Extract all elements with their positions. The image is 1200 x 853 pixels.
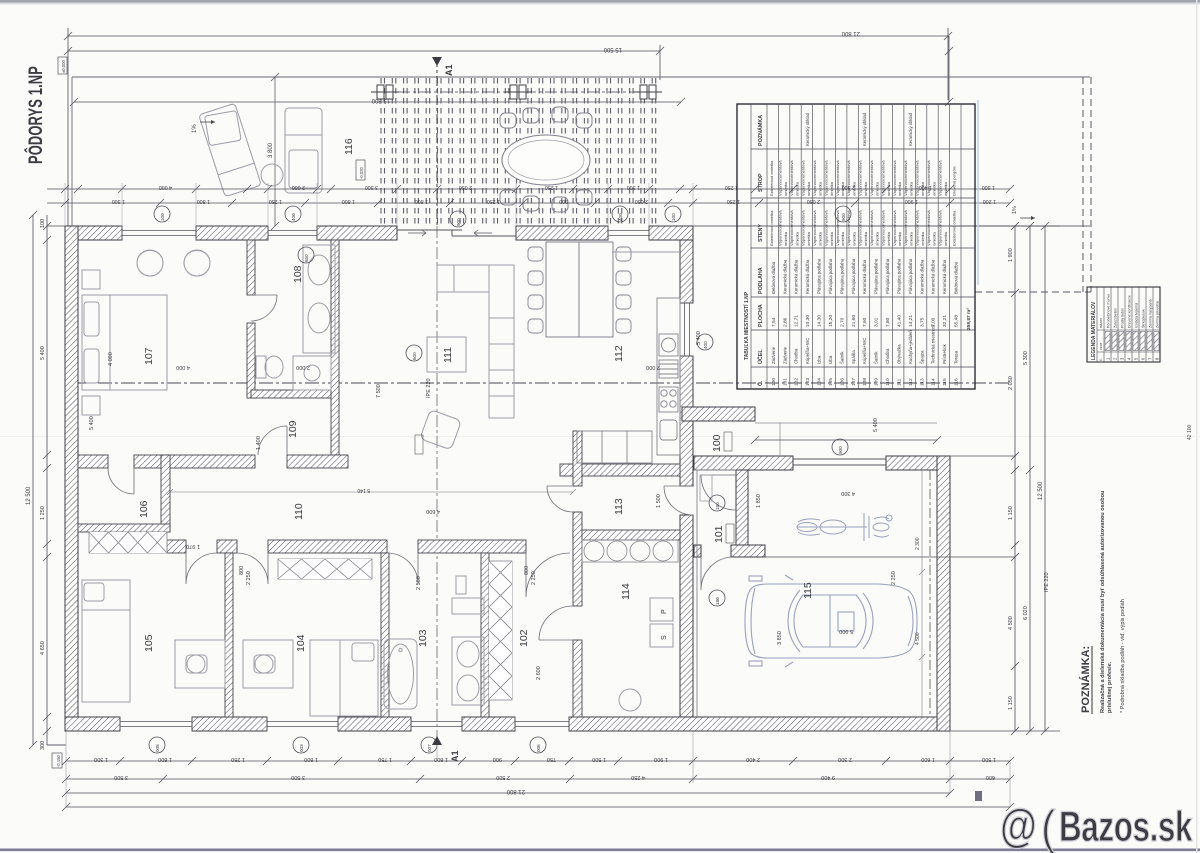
svg-text:* Podrobná skladba podláh - vi: * Podrobná skladba podláh - viď. výpis p… xyxy=(1120,599,1126,713)
svg-text:Č.: Č. xyxy=(757,380,764,386)
svg-text:omietka: omietka xyxy=(852,181,857,196)
svg-text:Vápennocementová: Vápennocementová xyxy=(880,160,885,196)
svg-text:100: 100 xyxy=(711,434,723,452)
svg-text:Prístrešok: Prístrešok xyxy=(942,343,947,364)
terrace roof edge dashed right xyxy=(975,77,1091,292)
svg-text:Vápennocementová: Vápennocementová xyxy=(846,160,851,196)
svg-text:106: 106 xyxy=(839,378,845,386)
top right small chain xyxy=(945,36,953,106)
svg-text:omietka: omietka xyxy=(886,181,891,196)
svg-text:1 300: 1 300 xyxy=(982,184,995,190)
annex south wall E3 xyxy=(694,545,701,557)
svg-text:Plávajúca podlaha: Plávajúca podlaha xyxy=(839,258,844,294)
svg-text:4 250: 4 250 xyxy=(631,774,645,780)
interior wall 107/108 xyxy=(247,240,255,398)
garage top wall left segment xyxy=(694,456,793,470)
svg-text:2 000: 2 000 xyxy=(292,184,305,190)
svg-text:Šatník: Šatník xyxy=(874,351,879,364)
svg-text:Šatník: Šatník xyxy=(839,351,844,364)
svg-text:1 300: 1 300 xyxy=(627,184,640,190)
top detail chain row B xyxy=(47,199,697,207)
svg-text:111: 111 xyxy=(896,378,902,386)
svg-text:2 600: 2 600 xyxy=(536,666,542,680)
svg-text:2 050: 2 050 xyxy=(1008,376,1014,390)
pergola column 1 xyxy=(371,85,399,99)
svg-text:100: 100 xyxy=(671,213,676,221)
svg-text:258,87 m²: 258,87 m² xyxy=(966,308,972,330)
coffee table 111 xyxy=(427,337,466,372)
svg-text:Prostý betón: Prostý betón xyxy=(1120,308,1124,328)
svg-text:Vápennocementová: Vápennocementová xyxy=(823,160,828,196)
svg-text:±0,000: ±0,000 xyxy=(61,60,66,73)
pergola column 2 xyxy=(504,85,532,99)
svg-text:2 250: 2 250 xyxy=(891,571,897,585)
svg-text:Vápennocementová: Vápennocementová xyxy=(778,210,783,246)
svg-text:2 250: 2 250 xyxy=(246,571,252,585)
table col room 112 xyxy=(903,112,914,386)
svg-text:21,60: 21,60 xyxy=(851,315,857,327)
faint crease line xyxy=(0,436,1200,437)
svg-text:omietka: omietka xyxy=(783,231,788,246)
svg-text:Vápennocementová: Vápennocementová xyxy=(858,210,863,246)
svg-text:Plávajúca podlaha: Plávajúca podlaha xyxy=(896,258,901,294)
washer dryer 114 xyxy=(650,598,673,647)
bottom scan edge xyxy=(0,849,1200,852)
svg-text:1 300: 1 300 xyxy=(112,198,125,204)
bottom windows xyxy=(120,717,569,731)
garage top wall right segment xyxy=(886,456,950,470)
svg-text:112: 112 xyxy=(613,345,625,362)
sofa room 111 xyxy=(437,265,514,418)
svg-text:Keramický obklad: Keramický obklad xyxy=(862,112,867,146)
svg-text:111: 111 xyxy=(442,347,454,363)
svg-text:400: 400 xyxy=(703,341,708,349)
svg-text:2,86: 2,86 xyxy=(782,317,788,327)
terrace dining table oval xyxy=(502,135,590,185)
wardrobe X 106 xyxy=(89,532,167,553)
room table TABULKA MIESTNOSTI 1.NP xyxy=(737,104,975,389)
extension lines bottom xyxy=(66,731,1010,807)
svg-text:113: 113 xyxy=(919,378,925,386)
svg-text:Chodba: Chodba xyxy=(885,348,890,364)
svg-text:1 850: 1 850 xyxy=(756,494,762,508)
svg-text:900: 900 xyxy=(493,756,502,762)
svg-text:Keramická dlažba: Keramická dlažba xyxy=(919,259,924,294)
watermark Bazos.sk xyxy=(1000,799,1193,853)
svg-text:omietka: omietka xyxy=(932,231,937,246)
svg-text:Chodba: Chodba xyxy=(794,348,799,364)
svg-text:104: 104 xyxy=(817,378,823,386)
table col room 100 xyxy=(769,160,777,386)
svg-text:POZNÁMKA: POZNÁMKA xyxy=(757,115,764,146)
svg-text:900: 900 xyxy=(838,446,843,454)
svg-text:názov: názov xyxy=(1099,318,1103,328)
svg-text:108: 108 xyxy=(292,265,304,283)
wardrobe X 102 vertical xyxy=(489,561,512,700)
svg-text:STENY: STENY xyxy=(758,224,764,242)
svg-text:104: 104 xyxy=(295,634,307,652)
svg-text:Vápennocementová: Vápennocementová xyxy=(778,160,783,196)
svg-text:Keramický obklad: Keramický obklad xyxy=(805,112,810,146)
svg-text:2 050: 2 050 xyxy=(459,184,472,190)
svg-text:omietka: omietka xyxy=(897,231,902,246)
svg-text:400: 400 xyxy=(618,213,623,221)
svg-text:1 400: 1 400 xyxy=(256,436,262,450)
svg-text:106: 106 xyxy=(138,500,150,518)
top detail chain row B right extension xyxy=(693,199,1014,207)
table col room 104 xyxy=(812,160,823,386)
svg-text:7,54: 7,54 xyxy=(771,317,777,327)
svg-text:A1: A1 xyxy=(444,64,454,76)
svg-text:Vápennocementová: Vápennocementová xyxy=(835,160,840,196)
svg-text:2 500: 2 500 xyxy=(416,576,422,590)
svg-text:Betónová dlažba: Betónová dlažba xyxy=(954,261,959,294)
bottom chain 2 xyxy=(62,775,1014,783)
svg-text:110: 110 xyxy=(293,503,305,520)
svg-text:6 020: 6 020 xyxy=(1023,606,1029,620)
svg-text:101: 101 xyxy=(782,378,788,386)
svg-text:PODLAHA: PODLAHA xyxy=(758,267,764,294)
svg-text:650: 650 xyxy=(304,254,309,262)
svg-text:Plávajúca podlaha: Plávajúca podlaha xyxy=(851,258,856,294)
svg-text:omietka: omietka xyxy=(932,181,937,196)
svg-text:1 200: 1 200 xyxy=(983,198,996,204)
svg-text:Zádverie: Zádverie xyxy=(782,346,787,364)
svg-text:1 900: 1 900 xyxy=(1008,248,1014,262)
svg-text:4 500: 4 500 xyxy=(915,632,921,645)
svg-text:Vápennocementová: Vápennocementová xyxy=(915,160,920,196)
top dimension line 15500 xyxy=(64,45,664,80)
svg-text:omietka: omietka xyxy=(943,231,948,246)
reference bubbles bottom xyxy=(149,737,546,753)
left elev box bottom xyxy=(52,753,62,768)
svg-text:2 300: 2 300 xyxy=(915,537,921,550)
svg-text:107: 107 xyxy=(851,378,857,386)
svg-text:100: 100 xyxy=(40,219,46,228)
svg-text:Plávajúca podlaha: Plávajúca podlaha xyxy=(874,258,879,294)
door 106 xyxy=(108,468,134,494)
svg-text:Keramická dlažba: Keramická dlažba xyxy=(862,259,867,294)
svg-text:Vápennocementová: Vápennocementová xyxy=(903,210,908,246)
table col room 101 xyxy=(778,160,789,386)
interior wall 108/111 xyxy=(331,240,339,455)
svg-text:3,01: 3,01 xyxy=(874,317,880,327)
window top wall 3 xyxy=(608,226,649,240)
svg-text:2,70: 2,70 xyxy=(839,317,845,327)
svg-text:112: 112 xyxy=(908,378,914,386)
svg-text:21 800: 21 800 xyxy=(841,30,860,36)
svg-text:omietka: omietka xyxy=(806,231,811,246)
garage inner dim line vertical xyxy=(919,470,925,717)
svg-text:103: 103 xyxy=(417,629,429,647)
bed room 104 xyxy=(310,640,378,716)
svg-text:006: 006 xyxy=(536,744,541,752)
wall 104/105 xyxy=(225,553,233,717)
door 105 xyxy=(186,553,217,584)
right wall window xyxy=(680,303,693,356)
entry mat 101 xyxy=(700,475,712,501)
toilet room 108 xyxy=(256,356,283,378)
svg-text:Vápennocementová: Vápennocementová xyxy=(892,210,897,246)
svg-text:1 300: 1 300 xyxy=(94,756,108,762)
svg-text:Vápennocementová: Vápennocementová xyxy=(835,210,840,246)
fans room 107 xyxy=(137,250,210,276)
svg-text:Izolácia tepelná: Izolácia tepelná xyxy=(1134,303,1138,328)
svg-text:5 400: 5 400 xyxy=(873,418,879,432)
svg-text:LEGENDA MATERIÁLOV: LEGENDA MATERIÁLOV xyxy=(1090,301,1097,360)
car in garage xyxy=(745,575,917,667)
svg-text:4 000: 4 000 xyxy=(176,364,190,370)
door 109 xyxy=(258,426,287,455)
svg-text:Kuchyňa+jedáleň: Kuchyňa+jedáleň xyxy=(908,330,913,364)
svg-text:Obývačka: Obývačka xyxy=(896,344,901,364)
elevation box top-left xyxy=(58,57,67,74)
svg-text:Realizačná a dielenská dokumen: Realizačná a dielenská dokumentácia musí… xyxy=(1100,490,1106,713)
1% slope arrow terrace xyxy=(200,120,215,124)
svg-text:omietka: omietka xyxy=(840,181,845,196)
svg-text:omietka: omietka xyxy=(874,181,879,196)
svg-text:100: 100 xyxy=(160,213,165,221)
svg-text:180: 180 xyxy=(715,502,720,510)
svg-text:Vápennocementová: Vápennocementová xyxy=(801,210,806,246)
kitchen counter east xyxy=(657,298,680,455)
corridor closet circles xyxy=(582,540,678,562)
svg-text:5 300: 5 300 xyxy=(1023,351,1029,365)
sink counter 103 top xyxy=(452,576,484,614)
svg-text:113: 113 xyxy=(613,498,625,515)
svg-text:008: 008 xyxy=(155,744,160,752)
svg-text:Vápennocementová: Vápennocementová xyxy=(812,160,817,196)
svg-text:Vápennocementová: Vápennocementová xyxy=(812,210,817,246)
table col room 108 xyxy=(858,112,869,386)
svg-text:5 140: 5 140 xyxy=(357,487,370,493)
svg-text:Izba: Izba xyxy=(828,355,833,364)
svg-text:9 400: 9 400 xyxy=(821,774,835,780)
svg-text:omietka: omietka xyxy=(829,181,834,196)
top scan edge xyxy=(0,0,1200,3)
walkway north line xyxy=(755,422,937,424)
room 106 south wall xyxy=(78,524,170,532)
svg-text:2 000: 2 000 xyxy=(296,364,310,370)
legend LEGENDA MATERIALOV xyxy=(1087,287,1160,362)
svg-text:1 150: 1 150 xyxy=(1008,506,1014,520)
svg-text:600: 600 xyxy=(986,774,995,780)
svg-text:Keramická dlažba: Keramická dlažba xyxy=(931,259,936,294)
svg-text:omietka: omietka xyxy=(840,231,845,246)
svg-text:ÚČEL: ÚČEL xyxy=(757,349,764,364)
svg-text:107: 107 xyxy=(143,347,155,365)
svg-text:Keramická dlažba: Keramická dlažba xyxy=(805,259,810,294)
room 106 east wall xyxy=(161,455,170,532)
svg-text:4 600: 4 600 xyxy=(426,508,440,514)
svg-text:Vápennocementová: Vápennocementová xyxy=(926,160,931,196)
kitchen lower cabinets south xyxy=(577,431,652,463)
svg-text:Vápennocementová: Vápennocementová xyxy=(938,210,943,246)
table col room 113 xyxy=(915,160,926,386)
door 100 to 101 xyxy=(701,475,736,510)
door house east xyxy=(664,486,693,515)
svg-text:1 900: 1 900 xyxy=(654,756,668,762)
svg-text:003: 003 xyxy=(299,744,304,752)
section mark A1 top xyxy=(432,57,442,226)
svg-text:12 500: 12 500 xyxy=(1038,481,1044,500)
svg-text:omietka: omietka xyxy=(886,231,891,246)
svg-text:omietka: omietka xyxy=(795,231,800,246)
desk 104 xyxy=(243,640,293,688)
svg-text:IPE 220: IPE 220 xyxy=(426,378,432,398)
svg-text:100: 100 xyxy=(771,378,777,386)
carport roof overhang dashed xyxy=(929,470,931,717)
svg-text:5 900: 5 900 xyxy=(839,628,853,634)
svg-text:omietka: omietka xyxy=(829,231,834,246)
svg-text:Štrkopiesok: Štrkopiesok xyxy=(1140,309,1145,328)
right scan edge faint xyxy=(1196,0,1198,853)
svg-text:Spálňa: Spálňa xyxy=(851,350,856,364)
svg-text:5 400: 5 400 xyxy=(40,346,46,360)
svg-text:5 400: 5 400 xyxy=(89,416,95,430)
door 102 xyxy=(526,553,570,597)
svg-text:Plávajúca podlaha: Plávajúca podlaha xyxy=(885,258,890,294)
svg-text:omietka: omietka xyxy=(920,181,925,196)
corridor south wall segments xyxy=(167,540,526,553)
svg-text:1 250: 1 250 xyxy=(40,506,46,520)
garage right wall xyxy=(937,456,950,731)
motorcycle in garage xyxy=(797,513,892,541)
window top wall 2 xyxy=(268,226,317,240)
corridor inner dim line xyxy=(167,489,576,495)
svg-text:omietka: omietka xyxy=(852,231,857,246)
svg-text:300: 300 xyxy=(40,741,46,750)
desk 105 xyxy=(175,640,225,688)
svg-text:007: 007 xyxy=(427,744,432,752)
door 104 xyxy=(237,553,268,584)
bottom chain 1 xyxy=(62,757,1014,765)
svg-text:Bazos.sk: Bazos.sk xyxy=(1059,802,1193,850)
svg-text:4 650: 4 650 xyxy=(40,641,46,655)
svg-text:Zemina pôvodná: Zemina pôvodná xyxy=(1155,301,1159,328)
armchair 111 xyxy=(420,409,462,449)
annex right wall E2 xyxy=(736,470,748,553)
shower room 108 xyxy=(293,356,331,390)
svg-text:115: 115 xyxy=(802,582,814,599)
svg-text:1 970: 1 970 xyxy=(186,543,200,549)
door 113 xyxy=(547,486,573,512)
pergola ridge dash-dot line xyxy=(377,91,656,93)
svg-text:1 900: 1 900 xyxy=(905,198,918,204)
svg-text:-0,150: -0,150 xyxy=(56,754,61,767)
svg-text:1 250: 1 250 xyxy=(545,184,558,190)
svg-text:omietka: omietka xyxy=(920,231,925,246)
svg-text:PÔDORYS 1.NP: PÔDORYS 1.NP xyxy=(24,66,46,164)
vanity room 108 xyxy=(303,245,335,353)
svg-text:114: 114 xyxy=(620,583,632,600)
svg-text:STROP: STROP xyxy=(758,173,764,192)
svg-text:1 150: 1 150 xyxy=(1008,696,1014,710)
bed room 105 xyxy=(82,580,130,702)
annex north wall xyxy=(682,407,755,421)
svg-text:Drevená pergola: Drevená pergola xyxy=(952,166,957,196)
svg-text:omietka: omietka xyxy=(909,231,914,246)
svg-text:Zemina nasypaná: Zemina nasypaná xyxy=(1148,299,1152,328)
svg-text:42 100: 42 100 xyxy=(1187,424,1193,440)
svg-text:Špajza: Špajza xyxy=(919,350,924,364)
bottom chain 4 xyxy=(62,803,1014,811)
svg-text:55,48: 55,48 xyxy=(954,315,960,327)
right chains xyxy=(765,222,1060,735)
svg-text:príslušnej profesie.: príslušnej profesie. xyxy=(1107,661,1113,713)
svg-text:102: 102 xyxy=(794,378,800,386)
svg-text:4 000: 4 000 xyxy=(159,184,172,190)
walkway divider line xyxy=(779,423,781,456)
svg-text:A1: A1 xyxy=(450,750,460,762)
svg-text:3 500: 3 500 xyxy=(291,774,305,780)
svg-text:Vápennocementová: Vápennocementová xyxy=(823,210,828,246)
svg-text:1 250: 1 250 xyxy=(231,756,245,762)
svg-text:15,20: 15,20 xyxy=(828,315,834,327)
svg-text:14,21: 14,21 xyxy=(908,315,914,327)
svg-text:Keramický obklad: Keramický obklad xyxy=(908,112,913,146)
svg-text:10,30: 10,30 xyxy=(805,315,811,327)
wall 102 west xyxy=(481,553,489,717)
svg-text:@: @ xyxy=(1000,799,1037,850)
svg-text:Vápennocementová: Vápennocementová xyxy=(880,210,885,246)
svg-text:115: 115 xyxy=(942,378,948,386)
door 108 xyxy=(251,295,277,321)
svg-text:116: 116 xyxy=(343,138,355,155)
svg-text:1 500: 1 500 xyxy=(982,756,996,762)
left chain total xyxy=(29,211,37,749)
svg-text:1 250: 1 250 xyxy=(269,198,282,204)
table col room 111 xyxy=(892,160,903,386)
svg-text:Plávajúca podlaha: Plávajúca podlaha xyxy=(817,258,822,294)
svg-text:Exteriérová omietka: Exteriérová omietka xyxy=(769,210,774,246)
table col room 107 xyxy=(846,160,857,386)
svg-text:Vápennocementová: Vápennocementová xyxy=(903,160,908,196)
door 114 xyxy=(539,606,573,640)
svg-text:1 250: 1 250 xyxy=(487,198,500,204)
svg-text:109: 109 xyxy=(287,420,299,438)
sinks room 103 xyxy=(452,637,484,705)
garage door opening xyxy=(793,459,886,465)
svg-text:Vápennocementová: Vápennocementová xyxy=(846,210,851,246)
terrace chairs xyxy=(500,107,592,212)
svg-text:1 750: 1 750 xyxy=(378,756,392,762)
svg-text:omietka: omietka xyxy=(874,231,879,246)
wardrobe X 104 xyxy=(278,559,372,579)
svg-text:(: ( xyxy=(1041,801,1055,853)
svg-text:Technická miestnosť: Technická miestnosť xyxy=(931,324,936,364)
svg-text:Vápennocementová: Vápennocementová xyxy=(869,160,874,196)
top detail chain row A xyxy=(47,185,697,193)
table col room 115 xyxy=(938,160,949,386)
svg-text:3,75: 3,75 xyxy=(919,317,925,327)
svg-text:S: S xyxy=(661,635,668,640)
horizontal axis dash-dot xyxy=(75,382,1010,384)
svg-text:116: 116 xyxy=(954,378,960,386)
svg-text:3 500: 3 500 xyxy=(114,774,128,780)
svg-text:2 050: 2 050 xyxy=(635,198,648,204)
table col room 106 xyxy=(835,160,846,386)
table col room 114 xyxy=(926,160,937,386)
svg-text:110: 110 xyxy=(885,378,891,386)
svg-text:Železobetón: Železobetón xyxy=(1112,308,1117,328)
svg-text:108: 108 xyxy=(862,378,868,386)
svg-text:Exteriérová omietka: Exteriérová omietka xyxy=(952,210,957,246)
svg-text:1 250: 1 250 xyxy=(725,184,738,190)
svg-text:Plávajúca podlaha: Plávajúca podlaha xyxy=(908,258,913,294)
svg-text:12 500: 12 500 xyxy=(26,486,32,505)
small elevation boxes at rooms xyxy=(415,432,734,543)
